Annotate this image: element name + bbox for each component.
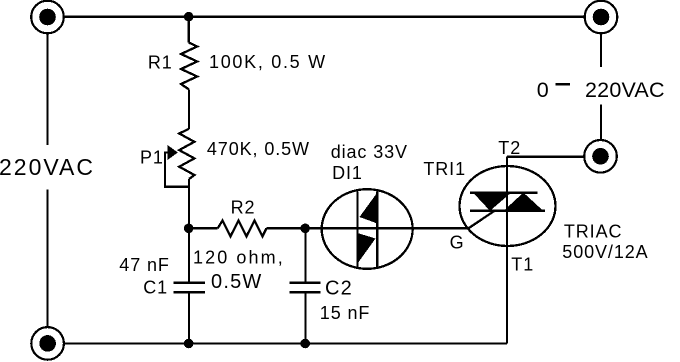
svg-text:220VAC: 220VAC	[585, 78, 665, 102]
terminal top-left	[31, 1, 64, 34]
wire R1 top lead	[188, 17, 190, 43]
wire triac vertical T2-T1	[506, 157, 508, 344]
svg-text:G: G	[450, 233, 465, 253]
wire T2 horizontal	[507, 155, 584, 157]
node junction top	[184, 12, 194, 22]
svg-text:diac 33V: diac 33V	[331, 142, 408, 162]
svg-text:15 nF: 15 nF	[320, 303, 371, 323]
svg-text:47 nF: 47 nF	[119, 255, 170, 275]
svg-text:TRIAC: TRIAC	[564, 221, 623, 241]
node junction bottom C2	[300, 339, 310, 349]
svg-text:C2: C2	[325, 277, 353, 299]
node junction bottom C1	[184, 339, 194, 349]
triac left triangle	[473, 193, 511, 211]
potentiometer P1	[179, 129, 194, 179]
svg-text:T1: T1	[511, 254, 534, 274]
svg-text:R2: R2	[231, 198, 256, 218]
svg-text:DI1: DI1	[332, 163, 363, 183]
wire C2 bottom lead	[304, 292, 306, 343]
triac TRI1 circle	[460, 166, 556, 246]
wire left vertical lower segment	[46, 190, 48, 328]
wire top horizontal	[65, 16, 585, 18]
diac left bar	[356, 192, 358, 268]
capacitor C1	[174, 283, 205, 293]
wire left vertical upper segment	[46, 33, 48, 145]
terminal bottom-left	[31, 327, 64, 360]
svg-text:470K, 0.5W: 470K, 0.5W	[207, 139, 310, 159]
resistor R1	[181, 43, 197, 90]
triac upper bar	[470, 191, 538, 193]
wire C2 top lead	[304, 228, 306, 283]
svg-text:500V/12A: 500V/12A	[562, 242, 648, 262]
wire C1 bottom lead	[188, 292, 190, 343]
terminal mid-right	[584, 140, 617, 173]
svg-text:T2: T2	[498, 138, 521, 158]
svg-text:R1: R1	[148, 53, 173, 73]
svg-text:100K, 0.5 W: 100K, 0.5 W	[209, 52, 327, 72]
svg-text:TRI1: TRI1	[423, 159, 466, 179]
svg-text:0.5W: 0.5W	[211, 271, 262, 293]
diac lower triangle	[358, 233, 376, 264]
node junction R2 right / C2	[300, 224, 310, 234]
wire bottom horizontal	[65, 342, 508, 344]
P1 wiper arrow	[168, 145, 178, 160]
wire R1 to P1	[188, 90, 190, 129]
wire R2 to triac gate horizontal	[267, 227, 469, 229]
wire right vertical upper segment	[600, 33, 602, 67]
svg-text:120 ohm,: 120 ohm,	[193, 248, 285, 268]
diac upper triangle	[360, 193, 378, 224]
terminal top-right	[585, 1, 618, 34]
svg-text:P1: P1	[140, 147, 164, 167]
wire P1 wiper	[165, 153, 189, 187]
wire triac gate diagonal	[469, 211, 495, 229]
wire right vertical lower segment	[600, 105, 602, 140]
diac DI1 circle	[322, 189, 413, 269]
svg-text:220VAC: 220VAC	[0, 154, 95, 180]
resistor R2	[218, 221, 267, 237]
svg-text:0: 0	[537, 78, 549, 102]
wire P1 to C1 vertical	[188, 179, 190, 283]
node junction R2 left	[184, 224, 194, 234]
diac right bar	[376, 192, 378, 268]
capacitor C2	[289, 283, 320, 293]
wire R2 left lead	[189, 227, 218, 229]
svg-text:C1: C1	[143, 278, 168, 298]
triac right triangle	[504, 193, 544, 211]
triac lower bar	[470, 210, 545, 212]
